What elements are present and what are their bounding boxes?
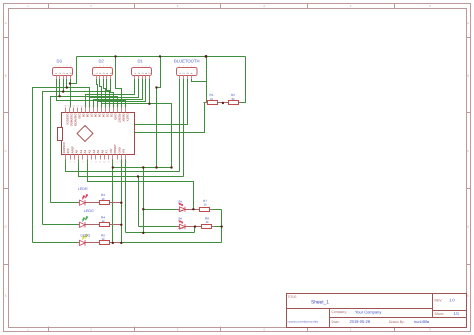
svg-text:4: 4 <box>263 328 265 332</box>
junction nest line1 at D3 pin4 <box>66 86 68 88</box>
svg-text:1k: 1k <box>210 97 214 101</box>
svg-text:Se: Se <box>178 199 182 203</box>
svg-text:26: 26 <box>80 105 83 108</box>
connector D2 <box>93 59 113 80</box>
junction bus at A6 <box>112 166 114 168</box>
svg-text:20: 20 <box>104 105 107 108</box>
svg-text:D: D <box>467 224 469 228</box>
wire MCU pin A0 staircase to BLUETOOTH pin1 <box>66 160 180 172</box>
svg-text:1/1: 1/1 <box>454 311 460 316</box>
LED LED1 <box>78 187 88 206</box>
svg-text:3: 3 <box>74 160 76 163</box>
wire D1 pin3 to MCU <box>94 79 143 108</box>
svg-text:6: 6 <box>87 160 89 163</box>
svg-text:D3: D3 <box>106 114 110 118</box>
wire top rail left drop <box>71 57 77 84</box>
svg-text:27: 27 <box>76 105 79 108</box>
wire LDR1 R7 red leads <box>177 209 213 211</box>
svg-text:1: 1 <box>27 4 29 8</box>
svg-text:18: 18 <box>112 105 115 108</box>
svg-text:5: 5 <box>350 328 352 332</box>
svg-text:D2: D2 <box>99 59 105 64</box>
svg-text:LEDR: LEDR <box>78 187 88 191</box>
svg-text:5: 5 <box>82 160 84 163</box>
svg-text:VIN: VIN <box>122 149 126 154</box>
photoresistor LDR1 <box>178 199 185 212</box>
LED LED3 <box>80 233 91 245</box>
svg-text:1: 1 <box>27 328 29 332</box>
junction D1 pin5 bus <box>148 103 150 105</box>
wire D1 pin2 to MCU <box>90 79 139 108</box>
svg-text:13: 13 <box>116 160 119 163</box>
svg-text:15: 15 <box>124 105 127 108</box>
wire link line from MCU VIN <box>126 232 195 234</box>
svg-text:7: 7 <box>91 160 93 163</box>
wire D1 pin4 to MCU <box>98 79 146 108</box>
junction LED3 row ground <box>120 242 122 244</box>
svg-text:D3: D3 <box>57 59 63 64</box>
svg-text:19: 19 <box>108 105 111 108</box>
junction rail at R1 drop <box>205 55 208 58</box>
wire R7 to R8 vertical <box>221 210 223 243</box>
wire D2 pin4 to MCU <box>107 79 110 108</box>
resistor R8 <box>202 216 212 228</box>
svg-text:REV:: REV: <box>435 299 443 303</box>
svg-text:4: 4 <box>263 4 265 8</box>
wire LED2 red leads <box>78 224 122 226</box>
svg-text:10: 10 <box>103 160 106 163</box>
svg-text:D1/TX: D1/TX <box>126 114 130 122</box>
junction LED1 row ground <box>120 202 122 204</box>
wire LDR row2 drop <box>138 177 140 227</box>
wire MCU TX to R1 left <box>135 103 205 133</box>
svg-text:LEDG: LEDG <box>81 233 91 237</box>
wire LED3 row to R8 net <box>33 242 222 244</box>
svg-text:nurz4tila: nurz4tila <box>414 319 430 324</box>
wire rail drop to R1 left <box>206 57 208 103</box>
svg-text:1k: 1k <box>204 202 208 206</box>
svg-text:D8: D8 <box>86 114 90 118</box>
junction D3 pin5 branch <box>69 82 71 84</box>
wire LDR2 R8 red leads <box>177 226 215 228</box>
svg-text:C: C <box>467 149 469 153</box>
svg-text:2k: 2k <box>232 97 236 101</box>
wire MCU pin A3 staircase to BLUETOOTH pin2 <box>79 160 184 177</box>
wire nest line1 to LED3 row and MCU <box>33 88 90 243</box>
resistor R4 <box>100 215 110 226</box>
junction mid bus right end <box>170 166 172 168</box>
svg-text:24: 24 <box>88 105 91 108</box>
svg-text:17: 17 <box>116 105 119 108</box>
LED LED2 <box>80 209 94 228</box>
title block frame <box>286 294 467 328</box>
svg-text:2019-05-29: 2019-05-29 <box>350 319 371 324</box>
svg-text:Date:: Date: <box>332 320 340 324</box>
wire D3 pin4 to nest line1 <box>66 79 68 88</box>
svg-text:D4: D4 <box>102 114 106 118</box>
svg-text:E: E <box>467 294 469 298</box>
svg-text:2: 2 <box>90 328 92 332</box>
wire D3 pin3 to nest line2 <box>63 79 65 92</box>
svg-text:LEDG: LEDG <box>84 209 94 213</box>
svg-text:D9: D9 <box>82 114 86 118</box>
svg-text:Se: Se <box>178 217 182 221</box>
junction rail at D2 drop <box>114 55 116 57</box>
svg-text:LDR: LDR <box>178 210 183 213</box>
svg-text:GND: GND <box>114 114 118 120</box>
svg-text:D0/RX: D0/RX <box>122 114 126 122</box>
junction LED2 row ground <box>120 224 122 226</box>
svg-text:E: E <box>5 294 7 298</box>
svg-text:2: 2 <box>70 160 72 163</box>
junction LDR row2 drop <box>137 175 139 177</box>
wire nest line3 to LED1 row and MCU <box>51 97 118 203</box>
svg-text:22: 22 <box>96 105 99 108</box>
svg-text:Your Company: Your Company <box>355 309 381 314</box>
frame column ticks top/bottom <box>49 4 395 332</box>
svg-text:Sheet:: Sheet: <box>435 312 445 316</box>
svg-text:easyeda.com/editor/nurz4tila: easyeda.com/editor/nurz4tila <box>288 321 319 324</box>
wire D2 pin5 to MCU <box>111 79 114 108</box>
junction nest outer at bus drop <box>155 86 157 88</box>
wire BLUETOOTH pin1 down <box>179 79 181 172</box>
svg-text:B: B <box>5 73 7 77</box>
wire rail jog to bus drop <box>157 57 161 88</box>
wire LED1 red leads <box>78 202 122 204</box>
wire D1 pin5 to MCU and bus drop <box>102 79 172 168</box>
wire D1 pin1 to MCU <box>86 79 135 108</box>
junction R8 right <box>220 225 222 227</box>
wire rail drop right of D2 <box>116 57 122 108</box>
junction rail at D1 drop <box>159 55 161 57</box>
svg-text:Company:: Company: <box>332 310 348 314</box>
svg-text:1k: 1k <box>206 220 210 224</box>
svg-text:3: 3 <box>177 328 179 332</box>
wire nest line4 D3 pin1 to MCU <box>57 79 126 108</box>
wire LED ground vertical <box>121 160 123 243</box>
wire BLUETOOTH pin3 to MCU RX <box>135 79 188 125</box>
svg-text:28: 28 <box>72 105 75 108</box>
wire BLUETOOTH pin2 down <box>183 79 185 177</box>
wire top rail net +5V <box>77 56 246 58</box>
svg-text:14: 14 <box>120 160 123 163</box>
wire D3 pin5 to MCU pin D12 <box>70 79 72 108</box>
svg-text:D6: D6 <box>94 114 98 118</box>
wire D3 pin2 to nest line3 <box>59 79 61 97</box>
svg-text:15: 15 <box>124 160 127 163</box>
svg-text:LDR: LDR <box>178 227 183 230</box>
svg-text:9: 9 <box>99 160 101 163</box>
wire MCU pin A6 to mid bus <box>113 160 172 243</box>
svg-text:D5: D5 <box>98 114 102 118</box>
junction mid bus at LDR drop <box>142 166 144 168</box>
resistor R5 <box>100 233 110 244</box>
svg-text:11: 11 <box>107 160 110 163</box>
wire rail right drop to R2 <box>239 57 246 103</box>
svg-text:D12/MISO: D12/MISO <box>70 114 74 128</box>
wire R1 R2 red leads <box>205 102 241 104</box>
svg-text:12: 12 <box>112 160 115 163</box>
wire MCU VIN down to link line <box>125 160 127 233</box>
wire D2 pin3 to MCU <box>104 79 106 108</box>
junction R1 R2 node <box>222 102 224 104</box>
resistor R2 <box>229 93 239 104</box>
frame row ticks left/right <box>4 38 471 265</box>
junction LDR1 to R7 <box>192 208 194 210</box>
wire BLUETOOTH pin4 to R1 <box>192 79 207 82</box>
wire nest line2 to LED2 row and MCU <box>43 92 110 225</box>
svg-text:8: 8 <box>95 160 97 163</box>
svg-text:A: A <box>467 21 469 25</box>
junction nest line2 at D3 pin3 <box>62 90 64 92</box>
svg-text:A: A <box>5 21 7 25</box>
svg-text:RESET: RESET <box>118 114 122 123</box>
wire link to LDR2 junction <box>194 227 196 233</box>
wire LED1 row <box>51 202 122 204</box>
resistor R1 <box>208 93 218 104</box>
svg-text:16: 16 <box>120 105 123 108</box>
svg-text:6: 6 <box>429 328 431 332</box>
resistor R3 <box>100 193 110 204</box>
photoresistor LDR2 <box>178 217 185 230</box>
wire LED2 row <box>43 224 122 226</box>
svg-text:D2: D2 <box>110 114 114 118</box>
svg-text:30: 30 <box>64 105 67 108</box>
wire R1 left stub <box>204 102 208 104</box>
svg-text:D1: D1 <box>138 59 144 64</box>
svg-text:C: C <box>5 149 7 153</box>
svg-text:21: 21 <box>100 105 103 108</box>
connector D1 <box>132 59 152 80</box>
svg-text:D10: D10 <box>78 114 82 119</box>
svg-text:D: D <box>5 224 7 228</box>
svg-text:3: 3 <box>177 4 179 8</box>
junction LDR1 row left <box>142 208 144 210</box>
svg-text:Drawn By:: Drawn By: <box>389 320 405 324</box>
svg-text:1k: 1k <box>102 197 106 201</box>
svg-text:1k: 1k <box>102 219 106 223</box>
title block texts <box>288 295 445 324</box>
svg-text:D13/SCK: D13/SCK <box>66 114 70 127</box>
svg-text:BLUETOOTH: BLUETOOTH <box>174 59 200 64</box>
junction LDR2 to R8 <box>194 225 196 227</box>
wire bus drop to LDR row1 <box>143 168 145 233</box>
svg-text:6: 6 <box>429 4 431 8</box>
svg-text:D7: D7 <box>90 114 94 118</box>
op-amp U1 Arduino Nano MCU <box>58 105 135 164</box>
junction nest line3 at D3 pin2 <box>58 95 60 97</box>
wire D2 pin2 to MCU <box>100 79 102 108</box>
junction mid bus at nest drop <box>155 166 157 168</box>
svg-text:2: 2 <box>90 4 92 8</box>
svg-text:23: 23 <box>92 105 95 108</box>
svg-text:B: B <box>467 73 469 77</box>
wire MCU pin A5 staircase to LDR row1 <box>88 160 194 210</box>
svg-text:D11/MOSI: D11/MOSI <box>74 114 78 127</box>
svg-text:1k: 1k <box>102 237 106 241</box>
svg-text:25: 25 <box>84 105 87 108</box>
wire D2 pin1 to MCU <box>97 79 98 108</box>
svg-text:Sheet_1: Sheet_1 <box>311 300 329 306</box>
svg-text:4: 4 <box>78 160 80 163</box>
wire LDR2 row <box>139 226 222 228</box>
connector D3 <box>53 59 73 80</box>
junction row3 at A6 drop <box>112 242 114 244</box>
connector BLUETOOTH <box>174 59 200 80</box>
wire R1 to R2 <box>218 102 229 104</box>
wire LDR1 row <box>144 209 222 211</box>
svg-text:TITLE:: TITLE: <box>288 295 298 299</box>
wire LED3 red leads <box>78 242 122 244</box>
svg-text:5: 5 <box>350 4 352 8</box>
svg-text:1: 1 <box>65 160 67 163</box>
svg-text:29: 29 <box>68 105 71 108</box>
title block values <box>288 298 460 324</box>
junction link line at LDR drop <box>142 232 144 234</box>
wire bus drop from nest <box>156 88 158 168</box>
svg-text:1.0: 1.0 <box>449 298 455 303</box>
resistor R7 <box>200 199 210 212</box>
